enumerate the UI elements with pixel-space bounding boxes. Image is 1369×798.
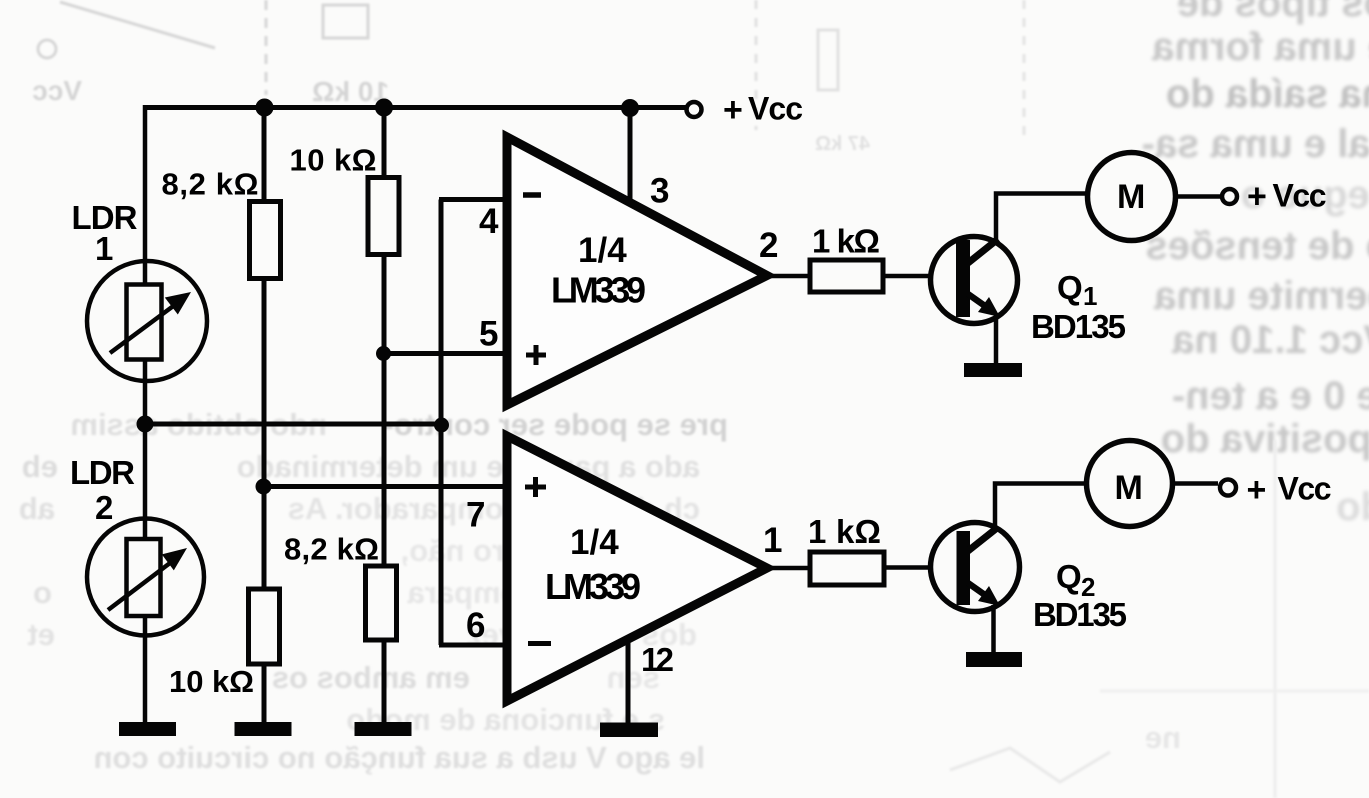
wire Q2 emitter xyxy=(991,605,996,652)
svg-text:te 0 e a ten-: te 0 e a ten- xyxy=(1172,374,1369,418)
svg-text:+: + xyxy=(723,91,743,129)
svg-text:nal e uma sa-: nal e uma sa- xyxy=(1142,122,1369,166)
wire 8.2k/10k column (x=264) xyxy=(262,105,267,722)
+Vcc terminal (top) xyxy=(687,91,804,130)
resistor 1 kΩ (bottom) xyxy=(808,513,884,585)
svg-text:BD135: BD135 xyxy=(1031,308,1126,345)
svg-text:et: et xyxy=(27,617,55,652)
svg-text:4: 4 xyxy=(479,202,499,241)
resistor 8,2 kΩ (top) xyxy=(162,167,281,279)
svg-text:1/4: 1/4 xyxy=(578,231,627,270)
motor M2 xyxy=(1087,441,1173,527)
node top rail / pin3 column xyxy=(621,99,639,117)
svg-text:ab: ab xyxy=(19,491,55,526)
photoresistor LDR1 xyxy=(72,199,208,381)
resistor 10 kΩ (bottom) xyxy=(169,589,280,699)
svg-text:1: 1 xyxy=(95,230,113,267)
wire pin 12 xyxy=(628,639,674,723)
ground under 10k xyxy=(235,722,292,736)
svg-text:em ambos os: em ambos os xyxy=(272,660,470,695)
svg-text:10 kΩ: 10 kΩ xyxy=(169,664,254,699)
wire Q1 emitter xyxy=(994,316,999,363)
svg-text:BD135: BD135 xyxy=(1033,596,1127,633)
+Vcc terminal (motor 2) xyxy=(1220,471,1332,510)
svg-text:LM339: LM339 xyxy=(551,270,646,311)
wire Q2 collector xyxy=(995,484,1088,531)
resistor 8,2 kΩ (bottom) xyxy=(284,532,397,641)
motor M1 xyxy=(1088,153,1176,241)
svg-text:6: 6 xyxy=(466,606,485,645)
svg-text:2: 2 xyxy=(759,226,778,265)
node top rail / 8.2k column xyxy=(256,99,274,117)
svg-text:LDR: LDR xyxy=(70,454,135,491)
svg-text:Q: Q xyxy=(1056,558,1082,595)
svg-text:+: + xyxy=(1247,471,1267,509)
svg-text:1/4: 1/4 xyxy=(570,523,619,562)
wire top +Vcc rail xyxy=(145,105,686,110)
wire pin 3 xyxy=(630,105,669,211)
ground under 8.2k xyxy=(355,722,412,736)
svg-text:e uma forma: e uma forma xyxy=(1151,25,1369,69)
wire motor1 to +Vcc xyxy=(1176,194,1222,199)
node pin7 junction xyxy=(256,479,272,495)
wire left LDR column xyxy=(143,105,148,722)
wire to Q2 base xyxy=(884,565,958,570)
op-amp U1b 1/4 LM339 xyxy=(507,436,782,701)
resistor 1 kΩ (top) xyxy=(810,223,883,293)
svg-text:10 kΩ: 10 kΩ xyxy=(290,143,377,178)
wire op1 output xyxy=(763,274,812,279)
svg-text:são positiva do: são positiva do xyxy=(1161,417,1369,461)
transistor Q2 BD135 xyxy=(931,523,1128,634)
svg-text:M: M xyxy=(1115,469,1143,507)
svg-text:Vcc: Vcc xyxy=(1273,178,1327,214)
node middle rail left xyxy=(137,416,154,433)
svg-text:1 kΩ: 1 kΩ xyxy=(808,513,881,550)
svg-text:na saída do: na saída do xyxy=(1166,72,1369,116)
wire pin 4 xyxy=(439,200,509,242)
svg-text:12: 12 xyxy=(641,641,674,678)
svg-text:8,2 kΩ: 8,2 kΩ xyxy=(162,167,259,202)
svg-text:ado a partir de um determinado: ado a partir de um determinado xyxy=(237,449,700,484)
svg-text:3: 3 xyxy=(650,172,669,211)
ground pin 12 xyxy=(600,723,658,738)
svg-text:8,2 kΩ: 8,2 kΩ xyxy=(284,532,379,567)
node pin5 junction xyxy=(376,346,391,361)
svg-text:LM339: LM339 xyxy=(545,566,641,607)
wire middle rail xyxy=(145,422,441,427)
svg-text:Q: Q xyxy=(1057,269,1083,306)
wire to Q1 base xyxy=(883,274,958,279)
ground under Q1 xyxy=(964,363,1022,377)
svg-text:Vcc: Vcc xyxy=(32,75,82,106)
svg-text:os tipos de: os tipos de xyxy=(1177,0,1369,25)
svg-text:2: 2 xyxy=(95,489,113,526)
photoresistor LDR2 xyxy=(70,454,204,636)
svg-text:eb: eb xyxy=(22,449,58,484)
resistor 10 kΩ (top) xyxy=(290,143,400,255)
svg-text:5: 5 xyxy=(479,315,498,354)
wire 10k/8.2k column (x=384) xyxy=(382,105,387,722)
transistor Q1 BD135 xyxy=(931,237,1127,346)
svg-text:+: + xyxy=(1247,178,1267,216)
svg-text:47 kΩ: 47 kΩ xyxy=(815,133,870,155)
+Vcc terminal (motor 1) xyxy=(1222,178,1327,216)
svg-text:1: 1 xyxy=(763,521,782,560)
svg-text:1: 1 xyxy=(1083,281,1097,311)
wire pin 5 xyxy=(383,315,509,354)
svg-text:Vcc 1.10 na: Vcc 1.10 na xyxy=(1171,318,1369,362)
svg-text:o: o xyxy=(33,575,52,610)
node middle rail right xyxy=(434,418,449,433)
svg-text:do: do xyxy=(1336,485,1369,529)
node top rail / 10k column xyxy=(375,99,393,117)
ground under LDR2 xyxy=(119,722,176,736)
wire pin 7 xyxy=(263,487,509,535)
svg-text:7: 7 xyxy=(466,496,485,535)
svg-text:o de tensões: o de tensões xyxy=(1145,224,1369,268)
wire motor2 to +Vcc xyxy=(1173,481,1219,486)
svg-text:Vcc: Vcc xyxy=(1278,471,1332,507)
svg-text:le ago V usb a sua função no c: le ago V usb a sua função no circuito co… xyxy=(94,740,706,775)
wire pin 6 xyxy=(439,606,509,645)
wire pin4-pin6 bracket xyxy=(439,200,444,646)
svg-text:Vcc: Vcc xyxy=(748,91,803,127)
svg-text:1 kΩ: 1 kΩ xyxy=(812,223,880,260)
ground under Q2 xyxy=(966,652,1022,667)
svg-text:ne: ne xyxy=(1145,720,1181,755)
wire op2 output xyxy=(763,566,812,571)
wire Q1 collector xyxy=(996,194,1089,244)
svg-text:M: M xyxy=(1117,178,1145,216)
svg-text:permite uma: permite uma xyxy=(1153,274,1369,318)
op-amp U1a 1/4 LM339 xyxy=(507,137,778,405)
